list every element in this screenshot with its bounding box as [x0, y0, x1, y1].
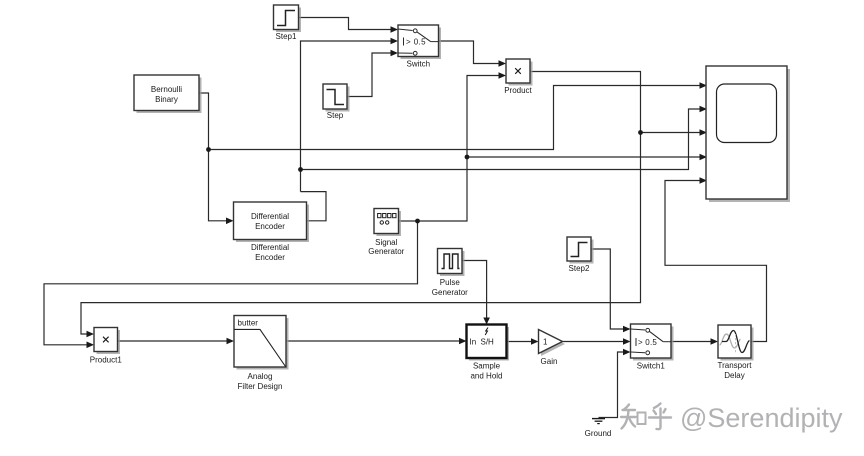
svg-text:@Serendipity: @Serendipity: [680, 403, 843, 433]
arrowhead Sample and Hold in: [459, 338, 467, 345]
block Signal Generator: [368, 209, 404, 257]
wire Analog Filter Design to Sample and Hold: [286, 340, 465, 342]
ground symbol: [592, 419, 605, 424]
arrowhead Gain in: [531, 338, 539, 345]
junction Diff-Encoder net: [298, 167, 303, 172]
BLOCKS: [90, 5, 790, 438]
block Switch: [398, 25, 441, 69]
wire net y169 Diff-Encoder to Scope in2: [301, 109, 705, 170]
block Differential Encoder: [234, 202, 310, 262]
svg-text:Step2: Step2: [569, 264, 590, 273]
svg-text:Generator: Generator: [432, 288, 468, 297]
arrowhead Sample and Hold trigger: [483, 318, 490, 325]
wire Step to Switch in3: [347, 53, 396, 97]
wire Switch out to Product in1: [439, 41, 505, 64]
wire Pulse Generator to Sample and Hold trigger: [462, 261, 487, 323]
svg-text:Differential: Differential: [251, 212, 289, 221]
junction Product net to Scope in3: [638, 130, 643, 135]
junction Bernoulli net: [206, 147, 211, 152]
svg-text:Step1: Step1: [276, 32, 297, 41]
wire Signal-Generator net to Scope in4: [467, 156, 704, 158]
arrowhead Scope in3: [700, 129, 708, 136]
svg-text:Analog: Analog: [248, 372, 273, 381]
arrowhead Switch in3: [391, 50, 399, 57]
arrowhead Switch in2: [391, 38, 399, 45]
svg-text:Delay: Delay: [724, 371, 744, 380]
block Step1: [274, 5, 302, 41]
block Bernoulli Binary: [134, 75, 202, 113]
wire Signal Generator to Product in2: [399, 76, 505, 222]
wire Product1 to Analog Filter Design: [118, 340, 232, 342]
svg-text:Transport: Transport: [718, 361, 753, 370]
wire Transport Delay to Scope in5: [665, 181, 767, 342]
wire Signal-Generator branch to Product1 in2: [44, 221, 418, 345]
junction Signal net to Scope in4: [465, 155, 470, 160]
wire Diff-Encoder output loop: [301, 192, 327, 221]
svg-text:Switch1: Switch1: [637, 362, 666, 371]
arrowhead Product in1: [499, 60, 507, 67]
block Scope: [706, 66, 790, 202]
block Switch1: [631, 324, 674, 371]
watermark zhihu logo 乎: [649, 404, 671, 430]
svg-text:Product: Product: [504, 86, 532, 95]
wire Diff-Encoder net vertical to Switch in2: [301, 41, 397, 192]
svg-text:Switch: Switch: [407, 60, 431, 69]
junction Signal-Generator net: [415, 219, 420, 224]
arrowhead Scope in2: [700, 106, 708, 113]
wire Bernoulli net y149 to Scope in1: [209, 86, 705, 150]
arrowhead Scope in5: [700, 177, 708, 184]
arrowhead Product1 in2: [87, 342, 95, 349]
wire Switch1 to Transport Delay: [671, 341, 716, 343]
arrowhead Scope in4: [700, 154, 708, 161]
arrowhead Switch in1: [391, 26, 399, 33]
arrowhead Product1 in1: [87, 331, 95, 338]
arrowhead Differential Encoder in: [226, 218, 234, 225]
watermark zhihu logo 知: [621, 405, 646, 429]
svg-text:Differential: Differential: [251, 243, 289, 252]
svg-text:> 0.5: > 0.5: [406, 38, 426, 47]
block Product: [504, 59, 532, 95]
block Product1: [90, 328, 123, 365]
block Transport Delay: [718, 325, 754, 380]
svg-text:Pulse: Pulse: [440, 278, 461, 287]
wire Step2 to Switch1 in1: [591, 249, 629, 329]
block Gain: [539, 330, 566, 367]
arrowhead Switch1 in2: [623, 338, 631, 345]
svg-text:S/H: S/H: [481, 338, 495, 347]
svg-text:Generator: Generator: [368, 247, 404, 256]
wire Product out feedback to Product1 in1: [81, 72, 641, 335]
wire Gain to Switch1 in2: [563, 341, 629, 343]
arrowhead Scope in1: [700, 82, 708, 89]
block Sample and Hold: [467, 325, 510, 381]
arrowhead Transport Delay in: [711, 338, 719, 345]
svg-text:and Hold: and Hold: [470, 372, 502, 381]
svg-text:Signal: Signal: [375, 238, 397, 247]
svg-text:Encoder: Encoder: [255, 222, 285, 231]
wire Sample and Hold to Gain: [507, 341, 537, 343]
wire Step1 to Switch in1: [299, 18, 397, 30]
svg-text:Bernoulli: Bernoulli: [151, 85, 182, 94]
wire Bernoulli Binary to Differential Encoder: [199, 93, 232, 221]
arrowhead Product in2: [499, 72, 507, 79]
arrowhead Switch1 in3: [623, 349, 631, 356]
svg-text:Ground: Ground: [585, 429, 612, 438]
block Step2: [567, 237, 594, 273]
block Analog Filter Design: [234, 316, 289, 392]
wire Ground to Switch1 in3: [599, 352, 629, 418]
wire Product net to Scope in3: [641, 132, 705, 134]
svg-text:Filter Design: Filter Design: [238, 382, 283, 391]
svg-text:Product1: Product1: [90, 356, 123, 365]
block Pulse Generator: [432, 249, 468, 298]
arrowhead Switch1 in1: [623, 326, 631, 333]
svg-text:In: In: [470, 338, 477, 347]
svg-text:butter: butter: [238, 319, 259, 328]
svg-text:Gain: Gain: [541, 357, 558, 366]
arrowhead Analog Filter Design in: [227, 338, 235, 345]
block Step: [323, 84, 350, 120]
svg-text:1: 1: [543, 338, 548, 347]
svg-text:> 0.5: > 0.5: [638, 338, 657, 347]
svg-text:Encoder: Encoder: [255, 253, 285, 262]
svg-text:Sample: Sample: [473, 362, 501, 371]
svg-text:Binary: Binary: [155, 95, 178, 104]
svg-text:Step: Step: [327, 111, 344, 120]
